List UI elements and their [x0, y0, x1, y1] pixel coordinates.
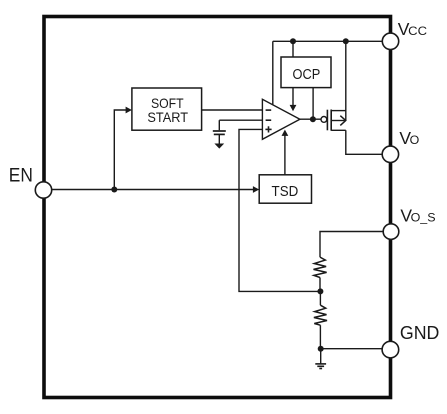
ground (3-bar) at divider [315, 349, 326, 369]
op-amp U1 [262, 99, 300, 139]
capacitor C1 [213, 120, 226, 144]
arrowhead OCP down [290, 105, 297, 111]
wire VCC to OCP [292, 41, 294, 57]
wire to GND pin [321, 348, 382, 350]
svg-text:TSD: TSD [272, 183, 299, 200]
resistor R1 [314, 257, 327, 277]
wire FET drain to VO [346, 130, 382, 154]
node VCC-OCP junction [290, 38, 296, 44]
pin EN [35, 182, 51, 198]
node output junction [310, 116, 316, 122]
wire EN branch to SOFT START [114, 110, 126, 190]
wire feedback to non-inverting input [239, 129, 320, 291]
svg-text:EN: EN [9, 165, 33, 186]
label GND [400, 323, 440, 343]
wire reference to inverting input [219, 119, 262, 121]
wire VCC bus [273, 40, 383, 42]
transistor Q1 (PMOS) [321, 110, 346, 131]
svg-text:O_S: O_S [411, 210, 436, 224]
pin GND [382, 341, 399, 358]
wire op-amp output [300, 118, 321, 120]
IC boundary box [44, 17, 391, 398]
label VCC [398, 19, 427, 39]
wire VCC to FET source [345, 41, 347, 120]
svg-text:OCP: OCP [293, 67, 321, 83]
resistor R2 [314, 305, 327, 325]
arrowhead into TSD [253, 186, 259, 193]
arrowhead TSD up [282, 130, 289, 136]
wire EN horizontal [52, 189, 254, 191]
ground (arrow style) at C1 [214, 144, 224, 149]
label VO_S [400, 205, 435, 225]
node EN junction [111, 187, 117, 193]
wire junction to R2 [319, 291, 321, 305]
arrowhead into SOFT START [126, 107, 132, 114]
svg-text:O: O [410, 133, 420, 147]
wire R2 to ground node [319, 325, 321, 349]
pin VO_S [383, 224, 399, 240]
svg-text:START: START [147, 109, 188, 125]
wire OCP to output node [312, 88, 314, 120]
node VCC-FET junction [343, 38, 349, 44]
wire VO_S to divider [320, 232, 383, 258]
node ground junction [318, 346, 324, 352]
pin VCC [382, 33, 398, 49]
pin VO [382, 146, 398, 162]
svg-text:GND: GND [400, 323, 440, 343]
wire SOFT START output to op-amp [202, 109, 263, 111]
TSD block [259, 175, 311, 203]
OCP block [281, 57, 331, 88]
wire OCP to op-amp [292, 88, 294, 106]
label EN [9, 165, 33, 186]
wire VCC drop to op-amp [272, 41, 274, 105]
wire TSD to op-amp [284, 135, 286, 175]
svg-text:CC: CC [408, 24, 427, 38]
node divider junction [317, 288, 323, 294]
wire R1 to junction [319, 278, 321, 292]
SOFT START block [132, 88, 202, 130]
label VO [399, 128, 419, 148]
